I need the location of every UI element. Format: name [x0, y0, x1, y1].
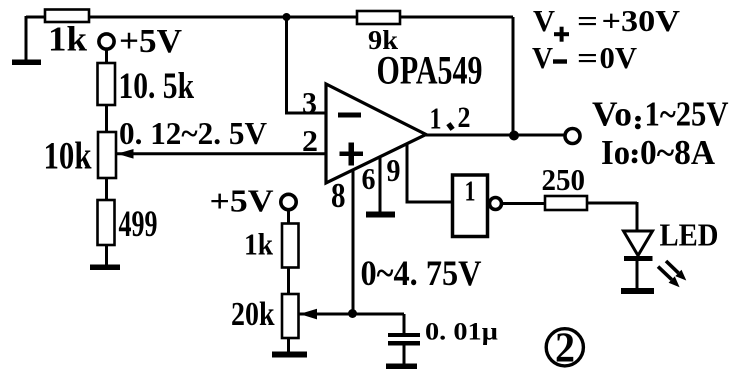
svg-text:LED: LED: [660, 217, 719, 252]
svg-text:=: =: [577, 40, 598, 75]
svg-text:Io: Io: [601, 133, 630, 172]
svg-text:1: 1: [430, 101, 442, 136]
svg-text:9: 9: [387, 152, 401, 188]
svg-text:V: V: [533, 3, 556, 38]
svg-text:8: 8: [331, 176, 346, 215]
svg-text:+5V: +5V: [119, 23, 182, 60]
svg-text:0V: 0V: [600, 40, 638, 75]
svg-text:+30V: +30V: [602, 3, 681, 38]
svg-text:0. 12~2. 5V: 0. 12~2. 5V: [119, 116, 267, 151]
svg-text:10k: 10k: [44, 135, 92, 178]
svg-text:2: 2: [555, 326, 575, 372]
svg-text:V: V: [532, 40, 554, 75]
svg-text:0. 01µ: 0. 01µ: [425, 317, 498, 346]
svg-text:6: 6: [362, 161, 376, 196]
svg-text:499: 499: [119, 204, 158, 245]
svg-text:2: 2: [458, 101, 471, 134]
svg-text:3: 3: [302, 85, 317, 120]
svg-text:=: =: [577, 3, 598, 38]
svg-text:1k: 1k: [244, 227, 274, 262]
svg-text:250: 250: [542, 162, 586, 197]
svg-text:2: 2: [302, 123, 318, 158]
svg-text:+5V: +5V: [210, 183, 274, 219]
svg-text:Vo: Vo: [592, 95, 632, 134]
svg-text:1: 1: [465, 176, 476, 208]
svg-text:1~25V: 1~25V: [645, 95, 729, 134]
svg-text:1k: 1k: [48, 20, 88, 59]
svg-text:0~8A: 0~8A: [640, 133, 716, 172]
svg-text:10. 5k: 10. 5k: [119, 66, 195, 107]
svg-text:OPA549: OPA549: [377, 48, 483, 93]
svg-text:0~4. 75V: 0~4. 75V: [361, 253, 482, 293]
svg-text:20k: 20k: [231, 296, 275, 333]
